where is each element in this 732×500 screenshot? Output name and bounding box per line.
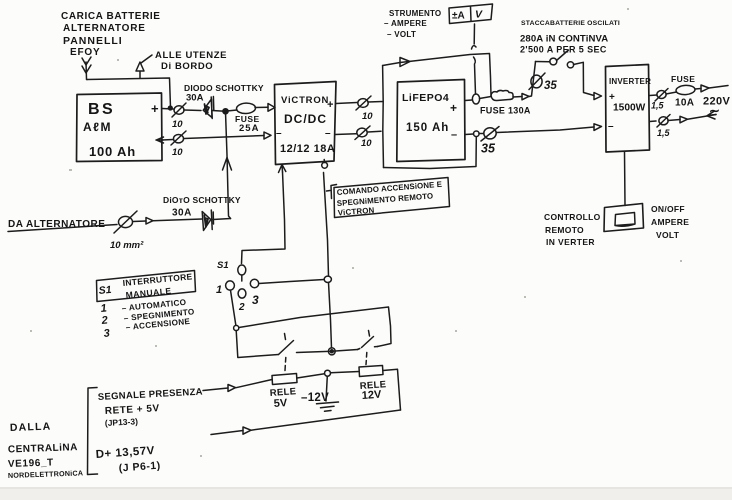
svg-text:CONTROLLO: CONTROLLO xyxy=(544,212,601,222)
svg-text:35: 35 xyxy=(481,142,496,156)
arrowhead into victron + in xyxy=(268,104,275,112)
wire: over-the-top + feed to fuse 130A node xyxy=(383,54,491,96)
svg-text:10: 10 xyxy=(362,111,373,122)
svg-text:AℓM: AℓM xyxy=(83,120,112,134)
svg-text:280A iN CONTiNVA: 280A iN CONTiNVA xyxy=(520,34,608,45)
wire: victron + out to riser xyxy=(368,101,383,104)
wire: to diode D1 xyxy=(184,109,201,112)
junction circle: S1-3 joins remote net xyxy=(324,276,331,282)
relay coil K1 rele 5V box xyxy=(272,374,297,385)
wire-gauge mark 1.5mm (AC phase) xyxy=(657,91,666,99)
svg-text:S1: S1 xyxy=(98,284,112,297)
relay K2 mechanical link (dashed) xyxy=(365,353,368,365)
svg-text:IN VERTER: IN VERTER xyxy=(546,237,595,247)
battery disconnect switch S2 (staccabatterie) xyxy=(536,61,551,63)
wire: riser x383 (shared vertical) xyxy=(382,66,385,168)
svg-text:DA ALTERNATORE: DA ALTERNATORE xyxy=(8,219,105,230)
wire: ground node to coil K2 xyxy=(331,372,360,373)
wire: vertical from junction down to alternator diode (net A) xyxy=(226,112,231,219)
svg-text:DIODO SCHOTTKY: DIODO SCHOTTKY xyxy=(184,83,264,93)
wire + arrowheads 220V return xyxy=(668,120,680,121)
svg-text:12V: 12V xyxy=(361,389,382,402)
wire: - bus from battery node to inverter - xyxy=(479,133,484,135)
remote control panel box xyxy=(604,204,644,232)
wire-gauge mark 10mm (victron + out) xyxy=(358,99,368,108)
wire-gauge mark 10mm (battery - lead) xyxy=(174,135,184,143)
svg-text:INVERTER: INVERTER xyxy=(609,77,651,86)
svg-text:VE196_T: VE196_T xyxy=(8,457,54,470)
svg-text:Di BORDO: Di BORDO xyxy=(161,61,213,72)
relay contacts node (bold) xyxy=(328,348,335,355)
wire: top bus to battery + junction xyxy=(87,78,171,108)
svg-text:PANNELLI: PANNELLI xyxy=(63,35,123,47)
wire: S1 contact 3 to remote net xyxy=(259,280,324,284)
wire: to arrowhead and diode D2 xyxy=(133,220,146,223)
svg-text:ALTERNATORE: ALTERNATORE xyxy=(63,23,146,34)
svg-text:VOLT: VOLT xyxy=(656,230,680,240)
wire: victron H terminal down to S1 common xyxy=(242,172,286,264)
wire-gauge mark 35mm (battery disconnect riser) xyxy=(531,75,542,88)
svg-text:–: – xyxy=(325,128,331,139)
svg-text:2'500 A PER 5 SEC: 2'500 A PER 5 SEC xyxy=(520,45,607,55)
svg-text:±A: ±A xyxy=(452,11,465,22)
svg-text:–12V: –12V xyxy=(301,392,329,404)
arrowhead on over-top wire xyxy=(400,58,410,67)
wire: + terminal to fuse 130A xyxy=(480,97,492,99)
svg-text:FUSE 130A: FUSE 130A xyxy=(480,106,531,116)
svg-text:–: – xyxy=(451,129,457,141)
svg-text:LiFEPO4: LiFEPO4 xyxy=(402,92,449,104)
wire: fuse F1 to victron + input xyxy=(255,106,268,108)
wire: coil K1 to ground node xyxy=(297,374,325,378)
battery B1 BS AGM 100Ah box xyxy=(77,93,163,162)
svg-text:2: 2 xyxy=(238,302,245,313)
S1 contact 2 circle xyxy=(238,289,246,298)
svg-text:STACCABATTERIE OSCILATI: STACCABATTERIE OSCILATI xyxy=(521,20,620,27)
svg-text:25A: 25A xyxy=(239,123,259,134)
svg-text:AMPERE: AMPERE xyxy=(651,217,689,227)
svg-text:10: 10 xyxy=(361,138,372,149)
wire: diode D1 to junction node xyxy=(212,110,225,113)
svg-text:3: 3 xyxy=(252,293,259,307)
bracket: dalla centralina labels xyxy=(88,388,98,475)
wire: S1-1 net down and to left relay contact xyxy=(236,331,278,358)
arrowhead +5V signal xyxy=(228,385,236,392)
svg-text:1: 1 xyxy=(216,284,222,296)
wire: S1-1 net loop over to right relay contact xyxy=(239,307,391,347)
svg-text:+: + xyxy=(450,101,457,115)
inverter U2 1500W box xyxy=(606,65,650,153)
svg-text:–: – xyxy=(276,128,282,139)
wire-gauge mark 10mm (victron - out) xyxy=(357,128,367,137)
battery - node circle xyxy=(474,131,480,137)
relay contact K2 (rele 12V) blade xyxy=(358,331,374,350)
S1 legend box (interruttore manuale) xyxy=(97,271,196,302)
wire: charger drop from CARICA BATTERIE arrow xyxy=(86,62,87,80)
svg-text:ViCTRON: ViCTRON xyxy=(281,95,329,106)
svg-text:1,5: 1,5 xyxy=(651,101,665,111)
arrowhead D+ feed xyxy=(243,427,251,434)
svg-text:12/12 18A: 12/12 18A xyxy=(280,143,335,155)
wire: battery - to victron - input xyxy=(184,136,264,139)
panel meter M1 box (±A V) xyxy=(449,4,493,24)
svg-text:3: 3 xyxy=(103,327,110,340)
wire: disconnect to inverter + xyxy=(574,62,595,95)
svg-text:FUSE: FUSE xyxy=(671,74,695,84)
wire: victron L terminal down remote net xyxy=(324,173,329,277)
comando accensione note box xyxy=(334,178,450,218)
svg-text:DiOтO SCHOTTKY: DiOтO SCHOTTKY xyxy=(163,195,241,205)
scan shadow bottom edge xyxy=(0,487,732,500)
wire + arrowhead 220V out xyxy=(695,88,701,91)
svg-text:10: 10 xyxy=(172,119,183,130)
victron bottom terminal L (right) circle terminal xyxy=(323,160,325,163)
fuse F3 10A oval xyxy=(676,85,696,96)
svg-text:V: V xyxy=(475,9,483,21)
victron - output wire xyxy=(335,133,356,136)
wire: diode D2 out, up to junction xyxy=(213,219,231,220)
svg-text:EFOY: EFOY xyxy=(70,47,100,58)
svg-text:(JP13-3): (JP13-3) xyxy=(105,416,139,428)
svg-text:35: 35 xyxy=(544,80,557,92)
remote panel display inner rect xyxy=(615,213,635,227)
diode D2 schottky 30A xyxy=(202,212,211,231)
junction: S1-1 net xyxy=(234,325,239,330)
wire: victron - out to down-turn xyxy=(368,130,381,133)
wire-gauge mark 35mm (- bus) xyxy=(484,128,496,139)
svg-text:1: 1 xyxy=(100,302,107,315)
svg-text:+: + xyxy=(609,92,615,103)
relay coil K2 rele 12V box xyxy=(359,366,383,377)
svg-text:10A: 10A xyxy=(675,98,694,109)
wire-gauge mark 10mm (battery + lead) xyxy=(174,106,184,114)
svg-text:∼: ∼ xyxy=(709,103,720,118)
svg-text:1500W: 1500W xyxy=(613,103,646,114)
meter divider xyxy=(470,7,473,22)
ground node circle xyxy=(325,370,331,376)
svg-text:BS: BS xyxy=(88,101,115,118)
wire: S1 contact 1 down to junction xyxy=(231,290,236,325)
wire: between contacts through node xyxy=(297,350,358,353)
svg-text:150 Ah: 150 Ah xyxy=(406,122,449,134)
svg-text:100 Ah: 100 Ah xyxy=(89,144,136,159)
wire: D+ 13,57V feed xyxy=(211,431,243,435)
S1 contact 3 circle xyxy=(250,279,258,287)
wire-gauge mark 1.5mm (AC neutral) xyxy=(659,117,668,125)
svg-text:DC/DC: DC/DC xyxy=(284,112,327,126)
switch S1 common contact circle xyxy=(238,265,246,275)
relay K1 mechanical link (dashed) xyxy=(284,358,287,371)
wire: DA ALTERNATORE feed xyxy=(8,225,117,232)
wire: node to lifepo4 - terminal xyxy=(465,133,474,136)
svg-text:5V: 5V xyxy=(273,397,288,410)
svg-text:–: – xyxy=(608,121,614,132)
wire-gauge mark 10mm2 (alternator lead) xyxy=(119,216,133,227)
wire: +5V signal into coil K1 xyxy=(203,388,228,391)
arrowhead into victron - in xyxy=(264,132,271,139)
relay contact K1 (rele 5V) blade xyxy=(279,334,294,355)
svg-text:30A: 30A xyxy=(186,93,204,104)
svg-text:– VOLT: – VOLT xyxy=(387,30,416,39)
S1 contact 1 circle xyxy=(226,281,235,290)
wire: remote net continues down to relay contacts node xyxy=(329,283,332,349)
svg-text:S1: S1 xyxy=(217,260,229,271)
svg-text:10 mm²: 10 mm² xyxy=(110,240,144,251)
tap arrow: alle utenze di bordo xyxy=(136,55,152,78)
lifepo4 battery B2 box xyxy=(397,80,465,162)
victron bottom terminal H (left) arrow up xyxy=(279,165,286,173)
inverter AC out line (phase) xyxy=(650,94,658,97)
inverter AC out line (neutral) xyxy=(650,120,657,123)
svg-text:DALLA: DALLA xyxy=(10,421,52,434)
fuse F1 25A oval xyxy=(227,110,237,111)
wire: right contact right terminal stub xyxy=(375,346,378,348)
victron + output wire xyxy=(336,103,357,104)
wire to fuse F3 10A xyxy=(666,92,677,94)
paper specks xyxy=(30,8,682,457)
junction node (diode/fuse/alternator) xyxy=(223,109,228,114)
arrowhead up on net A xyxy=(223,158,232,171)
svg-text:REMOTO: REMOTO xyxy=(545,225,584,235)
wire: meter down-lead with crossover squiggles xyxy=(473,24,475,44)
lifepo4 + terminal wire and circle xyxy=(465,99,472,102)
svg-text:30A: 30A xyxy=(172,208,192,219)
wire: ground node down to chassis ground xyxy=(326,376,327,401)
arrowhead double chevron down (charger input) xyxy=(82,57,91,73)
svg-text:STRUMENTO: STRUMENTO xyxy=(389,9,441,18)
battery + terminal wire to junction xyxy=(162,108,173,111)
S1 pole mark xyxy=(241,276,243,282)
wire: inverter bottom to remote control xyxy=(624,152,627,206)
svg-text:ALLE UTENZE: ALLE UTENZE xyxy=(155,50,227,61)
battery - terminal wire (arrow pointing into battery) xyxy=(162,139,173,142)
svg-text:+: + xyxy=(327,99,333,111)
svg-text:ON/OFF: ON/OFF xyxy=(651,204,685,214)
diode D1 schottky 30A xyxy=(203,99,212,118)
svg-text:– AMPERE: – AMPERE xyxy=(384,19,427,28)
svg-text:CARICA BATTERIE: CARICA BATTERIE xyxy=(61,11,161,22)
wire: fuse F2 to riser with arrowhead xyxy=(513,96,522,99)
fuse F2 130A lump xyxy=(491,90,513,100)
svg-text:+: + xyxy=(151,101,159,116)
bracket pointing to victron remote wires xyxy=(327,185,337,199)
dc-dc converter U1 Victron box xyxy=(275,82,337,165)
chassis ground symbol xyxy=(317,402,339,411)
wire: coil K2 to D+ riser xyxy=(383,369,401,410)
svg-text:10: 10 xyxy=(172,147,183,158)
svg-text:1,5: 1,5 xyxy=(657,128,671,138)
svg-text:2: 2 xyxy=(100,314,108,327)
wire: - routed under battery box xyxy=(384,137,477,169)
